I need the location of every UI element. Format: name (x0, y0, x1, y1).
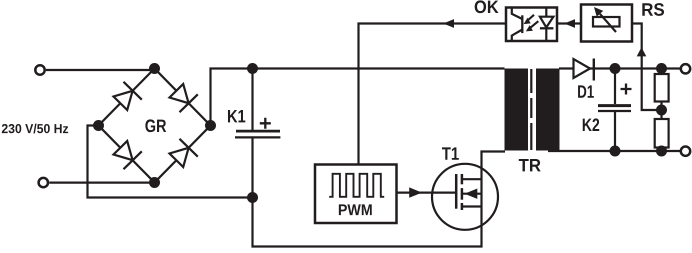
AC input terminal top (35, 65, 44, 74)
MOSFET T1 (432, 164, 498, 230)
label K2 (583, 118, 599, 131)
node divider top (656, 63, 667, 74)
node K2 top (610, 63, 621, 74)
node K1 bottom minus rail junction (247, 192, 258, 203)
node divider midpoint (656, 105, 667, 116)
bridge rectifier GR diamond (99, 69, 211, 183)
node bridge top (149, 63, 160, 74)
label 230 V/50 Hz (2, 124, 68, 134)
resistor R1 upper divider (655, 74, 669, 102)
arrowhead RS to OK (564, 19, 575, 28)
resistor R2 lower divider (655, 119, 669, 148)
PWM pulse waveform (329, 174, 384, 197)
label PWM (339, 204, 372, 215)
transformer TR core dashed (530, 69, 532, 150)
wire PWM output to gate (397, 192, 457, 194)
wire AC1 to bridge top node (46, 69, 155, 71)
wire OK to PWM (359, 24, 507, 165)
label D1 (578, 85, 594, 97)
label K1 (228, 110, 245, 122)
arrowhead OK to PWM (443, 19, 454, 28)
diode GR bottom-right (170, 139, 198, 167)
node bridge bottom (149, 177, 160, 188)
voltage reference RS box (581, 5, 632, 42)
arrowhead into RS (637, 47, 647, 56)
wire feedback sense divider midpoint to RS (632, 24, 662, 111)
optocoupler OK (506, 8, 557, 42)
node bridge left (93, 120, 104, 131)
diode GR top-left (114, 82, 142, 110)
arrowhead PWM to T1 (409, 187, 422, 197)
wire secondary top rail (559, 67, 680, 69)
label TR (519, 159, 541, 171)
AC input terminal bottom (39, 178, 48, 187)
node divider bottom (656, 146, 667, 157)
DC output terminal top (681, 64, 690, 73)
diode GR bottom-left (114, 141, 142, 169)
wire secondary bottom rail (548, 150, 680, 152)
transformer TR primary winding (505, 69, 529, 151)
wire AC2 to bridge bottom node (49, 182, 154, 184)
label GR (145, 119, 166, 132)
node K1 top (247, 63, 258, 74)
transformer TR secondary winding (536, 69, 560, 151)
wire bridge right node riser and top DC rail (211, 69, 505, 126)
DC output terminal bottom (681, 147, 690, 156)
capacitor K2 (598, 69, 632, 152)
wire bridge left node to minus rail (88, 126, 253, 198)
capacitor K1 (235, 69, 280, 198)
diode GR top-right (170, 84, 198, 112)
PWM controller box (315, 165, 397, 224)
divider stubs (660, 69, 662, 152)
label OK (475, 0, 499, 13)
node bridge right (205, 120, 216, 131)
diode D1 (574, 59, 594, 81)
label T1 (442, 147, 459, 159)
wire primary return rail to MOSFET source and primary bottom (253, 152, 506, 247)
wire RS to OK (557, 22, 581, 24)
node K2 bottom (610, 146, 621, 157)
label RS (642, 3, 664, 16)
